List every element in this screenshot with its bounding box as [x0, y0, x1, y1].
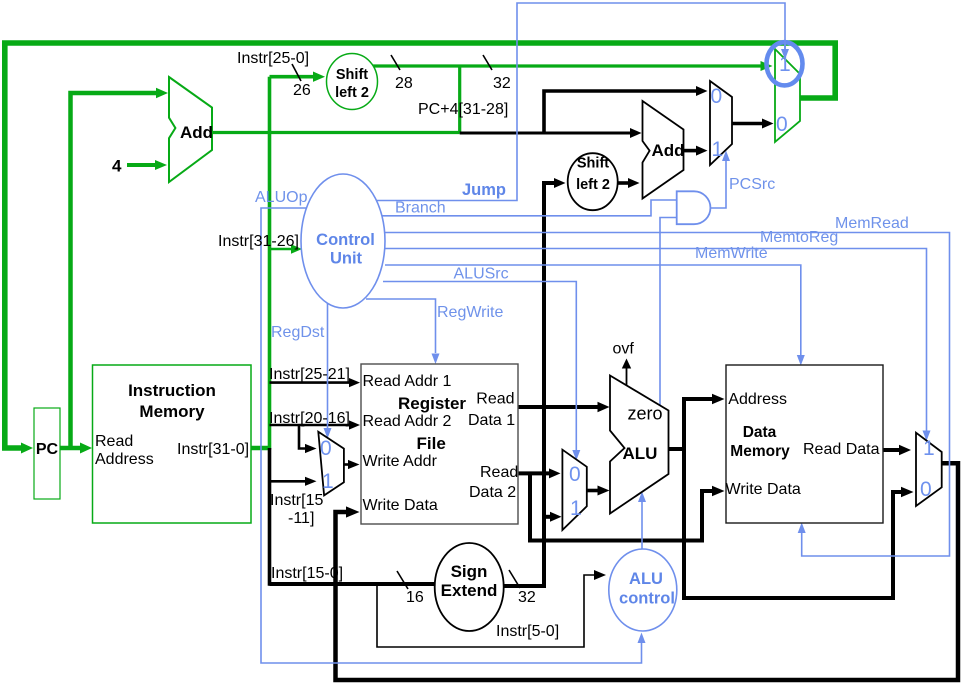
- svg-text:Instr[5-0]: Instr[5-0]: [496, 623, 559, 640]
- wire immediate into ALUSrc mux 1: [544, 515, 550, 519]
- wire MemRead control into Data Memory bottom: [382, 233, 950, 557]
- arrowhead PCSrc out into jump mux 0: [762, 119, 774, 129]
- arrowhead Instr[5-0] into ALU control: [594, 570, 606, 580]
- wire Add output PC+4 (green part): [212, 131, 460, 134]
- wire Instr[20-16] branch into RegDst mux 0: [299, 425, 305, 449]
- arrowhead jump address into jump mux 1: [761, 61, 773, 71]
- wire PCSrc mux output into jump mux 0: [732, 122, 762, 126]
- wire ALUSrc mux output into ALU: [587, 489, 598, 493]
- wire PC output to Instruction Memory: [60, 446, 81, 451]
- svg-text:Data 1: Data 1: [468, 412, 515, 429]
- slash tick 26: [292, 64, 301, 81]
- svg-text:ALU: ALU: [629, 570, 663, 588]
- arrowhead Add2 out into PCSrc mux 1: [696, 146, 708, 156]
- slash tick 28: [391, 55, 400, 70]
- svg-text:32: 32: [493, 75, 511, 92]
- svg-text:32: 32: [518, 589, 536, 606]
- arrowhead RegWrite into RF top: [432, 354, 440, 365]
- wire ALU result into Data Memory Address: [682, 397, 712, 401]
- svg-text:zero: zero: [628, 404, 663, 424]
- svg-text:Shift: Shift: [577, 156, 609, 172]
- wire RegWrite control into Register File: [366, 299, 436, 353]
- wire PC feedback (mux out, top, left edge, into PC): [5, 43, 835, 448]
- arrowhead 4 into Add: [155, 160, 167, 170]
- arrowhead Instr[31-26] into Control Unit: [291, 244, 302, 254]
- arrowhead ALUOp into ALU control bottom: [638, 633, 646, 644]
- svg-text:ALU: ALU: [623, 444, 658, 463]
- shift left 2 (branch) circle: [568, 153, 618, 210]
- svg-text:Read: Read: [95, 433, 133, 450]
- wire ALU result vertical: [682, 399, 686, 598]
- svg-text:-11]: -11]: [288, 510, 314, 527]
- mux RegDst: [318, 432, 344, 496]
- svg-text:26: 26: [293, 82, 311, 99]
- Sign Extend ellipse: [435, 543, 504, 631]
- arrowhead RD2 into ALUSrc mux 0: [549, 468, 561, 478]
- wire Instr[15-11] into RegDst mux 1: [270, 480, 306, 483]
- svg-text:RegWrite: RegWrite: [437, 304, 503, 321]
- arrowhead ovf: [622, 359, 631, 369]
- svg-text:Branch: Branch: [395, 200, 446, 217]
- svg-text:Data 2: Data 2: [469, 484, 516, 501]
- svg-text:1: 1: [779, 53, 791, 76]
- svg-text:Add: Add: [180, 123, 213, 142]
- svg-text:File: File: [417, 434, 446, 453]
- svg-text:Address: Address: [95, 451, 154, 468]
- arrowhead into RegDst mux 1: [305, 477, 317, 486]
- svg-text:Jump: Jump: [462, 181, 506, 199]
- slash tick 16: [397, 571, 408, 589]
- wire Instr[5-0] into ALU control: [377, 575, 594, 647]
- wire jump address to jump mux input 1: [372, 64, 761, 67]
- wire ovf output arrow: [626, 366, 628, 386]
- wire Read Data 2 into ALUSrc mux 0: [518, 471, 549, 475]
- svg-text:ALUSrc: ALUSrc: [454, 266, 509, 283]
- wire ALU result out: [668, 447, 686, 451]
- svg-text:PCSrc: PCSrc: [729, 176, 775, 193]
- svg-text:16: 16: [406, 589, 424, 606]
- svg-text:PC+4[31-28]: PC+4[31-28]: [418, 101, 508, 118]
- svg-text:Unit: Unit: [330, 250, 363, 268]
- wire zero from ALU into AND gate: [660, 218, 677, 411]
- svg-text:RegDst: RegDst: [271, 324, 325, 341]
- Data Memory box: [726, 365, 883, 523]
- wire Jump control to jump mux: [370, 3, 785, 201]
- svg-text:control: control: [619, 590, 675, 608]
- arrowhead ALUSrc out into ALU: [598, 486, 610, 496]
- svg-text:Instr[25-0]: Instr[25-0]: [237, 50, 309, 67]
- arrowhead into shift left 2 mid: [554, 178, 566, 188]
- arrowhead shift out into Add2: [628, 178, 640, 188]
- svg-text:Instr[25-21]: Instr[25-21]: [269, 366, 350, 383]
- svg-text:Extend: Extend: [441, 581, 498, 600]
- PC register box: [34, 408, 60, 499]
- arrowhead Instr[25-21]: [349, 378, 360, 387]
- wire RegDst mux output into Write Addr: [344, 463, 348, 466]
- svg-text:Write Data: Write Data: [726, 481, 801, 498]
- Instruction Memory box: [93, 365, 252, 523]
- wire ALU result to MemtoReg mux 0: [682, 492, 901, 598]
- arrowhead into DM Write Data: [712, 486, 725, 496]
- svg-text:Sign: Sign: [451, 562, 488, 581]
- wire sign extend output up to shift left 2 mid: [544, 183, 554, 586]
- arrowhead RegDst mux out into Write Addr: [348, 460, 360, 469]
- arrowhead into PC: [21, 443, 33, 454]
- svg-text:0: 0: [920, 478, 932, 501]
- wire ALUSrc control into ALUSrc mux: [383, 282, 576, 451]
- wire RegDst control into RegDst mux: [327, 303, 329, 428]
- arrowhead MemtoReg into mux top: [923, 431, 931, 442]
- wire ALU control output into ALU: [641, 502, 643, 550]
- arrowhead PCSrc into PCSrc mux: [722, 151, 730, 162]
- wire Read Data 2 down to Data Memory Write Data: [530, 473, 712, 540]
- svg-text:left 2: left 2: [576, 177, 610, 193]
- arrowhead ALU control into ALU bottom: [638, 492, 646, 503]
- ALU control ellipse: [609, 549, 677, 631]
- arrowhead Jump into jump mux 1: [781, 49, 789, 60]
- arrowhead writeback into RF Write Data: [346, 506, 360, 517]
- svg-text:MemtoReg: MemtoReg: [760, 229, 838, 246]
- svg-text:Read Addr 1: Read Addr 1: [363, 373, 452, 390]
- highlight circle on jump mux input 1: [767, 42, 803, 85]
- svg-text:Instr[31-0]: Instr[31-0]: [177, 441, 249, 458]
- wire sign extend output: [504, 584, 547, 588]
- wire ALUOp control into ALU control: [261, 208, 642, 663]
- svg-text:Address: Address: [728, 391, 787, 408]
- arrowhead MemWrite into DM top: [797, 355, 805, 366]
- wire Instr[15-0] into sign extend: [270, 582, 436, 586]
- wire Branch control into AND gate: [378, 200, 677, 216]
- wire Instr[25-21] into Read Addr 1: [270, 381, 350, 384]
- slash tick 32 (jump): [483, 55, 492, 70]
- mux ALUSrc: [562, 450, 586, 530]
- adder Add (branch target): [643, 101, 684, 199]
- svg-text:Write Data: Write Data: [363, 497, 438, 514]
- wire PC value up to Add: [71, 93, 157, 448]
- svg-text:Data: Data: [743, 424, 777, 441]
- svg-text:Read: Read: [476, 391, 514, 408]
- wire constant 4 into Add: [127, 163, 155, 167]
- wire PC+4 up to PCSrc mux 0: [544, 91, 696, 134]
- wire instruction bus vertical green: [268, 77, 272, 450]
- svg-text:Read Addr 2: Read Addr 2: [363, 413, 452, 430]
- svg-text:ALUOp: ALUOp: [255, 189, 308, 206]
- wire Instr[31-26] to Control Unit: [270, 248, 292, 251]
- shift left 2 (jump) circle: [327, 54, 378, 110]
- svg-text:4: 4: [112, 157, 122, 176]
- svg-text:Instr[15: Instr[15: [270, 492, 323, 509]
- svg-text:1: 1: [322, 470, 334, 493]
- svg-text:0: 0: [569, 463, 581, 486]
- wire Read Data 1 into ALU: [518, 405, 598, 409]
- wire instruction bus vertical black: [268, 448, 272, 586]
- arrowhead Instr[20-16]: [349, 420, 360, 429]
- svg-text:Instr[15-0]: Instr[15-0]: [271, 565, 343, 582]
- arrowhead into Add top input: [156, 88, 168, 98]
- svg-text:Register: Register: [398, 394, 466, 413]
- mux Jump (green): [775, 49, 800, 142]
- jump control arrow repeat over circle: [784, 40, 786, 49]
- wire MemWrite control into Data Memory top: [385, 265, 801, 355]
- svg-text:Read Data: Read Data: [803, 441, 880, 458]
- Control Unit ellipse: [301, 174, 385, 308]
- arrowhead Instr[25-0] into shift left 2: [313, 72, 325, 82]
- wire jump address vertical junction: [458, 66, 461, 133]
- svg-text:Write Addr: Write Addr: [363, 453, 438, 470]
- wire Instr[25-0] to shift left 2: [270, 75, 314, 79]
- svg-text:Instruction: Instruction: [128, 381, 216, 400]
- Register File box: [361, 364, 518, 524]
- svg-text:Add: Add: [652, 141, 685, 160]
- svg-text:left 2: left 2: [335, 85, 369, 101]
- svg-text:MemRead: MemRead: [835, 215, 909, 232]
- svg-text:Memory: Memory: [730, 443, 790, 460]
- arrowhead into IM read address: [80, 443, 92, 454]
- arrowhead RD1 into ALU: [598, 402, 610, 412]
- arrowhead RegDst into mux top: [324, 428, 332, 439]
- svg-text:1: 1: [712, 138, 724, 161]
- svg-text:Control: Control: [316, 231, 375, 249]
- svg-text:PC: PC: [36, 441, 59, 458]
- svg-text:0: 0: [711, 85, 723, 108]
- wire PC+4 black part to Add2: [460, 132, 630, 135]
- wire Data Memory Read Data into MemtoReg mux 1: [883, 448, 899, 452]
- wire MemtoReg control into MemtoReg mux: [384, 249, 927, 432]
- svg-text:0: 0: [320, 437, 332, 460]
- arrowhead PC+4 into PCSrc mux 0: [696, 86, 708, 96]
- arrowhead PC+4 into Add2 top: [630, 128, 642, 138]
- mux PCSrc: [710, 81, 732, 165]
- svg-text:0: 0: [776, 113, 788, 136]
- adder Add (PC+4): [169, 77, 212, 182]
- svg-text:ovf: ovf: [613, 341, 635, 358]
- svg-text:Read: Read: [480, 464, 518, 481]
- ALU: [610, 376, 669, 514]
- arrowhead ALUSrc into mux top: [572, 450, 580, 461]
- arrowhead MemRead into DM bottom: [798, 523, 806, 534]
- arrowhead into ALUSrc mux 1: [550, 512, 562, 522]
- mux MemtoReg: [916, 433, 942, 506]
- arrowhead into RegDst mux 0: [305, 444, 317, 453]
- AND gate (branch and zero): [677, 191, 711, 224]
- svg-text:1: 1: [923, 437, 935, 460]
- wire shift left 2 mid output into Add2: [618, 181, 629, 185]
- wire Instr[20-16] into Read Addr 2: [270, 424, 350, 427]
- slash tick 32 (sign extend): [509, 570, 520, 588]
- svg-text:Shift: Shift: [336, 67, 368, 83]
- svg-text:28: 28: [395, 75, 413, 92]
- svg-text:Instr[20-16]: Instr[20-16]: [269, 410, 350, 427]
- arrowhead into DM Address: [712, 394, 725, 404]
- arrowhead ALU result into MemtoReg mux 0: [901, 487, 914, 497]
- svg-text:MemWrite: MemWrite: [695, 245, 768, 262]
- wire Add2 output into PCSrc mux 1: [684, 149, 697, 153]
- svg-text:Instr[31-26]: Instr[31-26]: [218, 233, 299, 250]
- wire MemtoReg mux output back to RF Write Data: [336, 463, 959, 680]
- wire Instr[31-0] from Instruction Memory: [251, 446, 271, 451]
- svg-text:Memory: Memory: [139, 402, 205, 421]
- wire PCSrc from AND gate into PCSrc mux: [710, 161, 726, 208]
- arrowhead Read Data into MemtoReg mux 1: [899, 445, 911, 455]
- svg-text:1: 1: [570, 497, 582, 520]
